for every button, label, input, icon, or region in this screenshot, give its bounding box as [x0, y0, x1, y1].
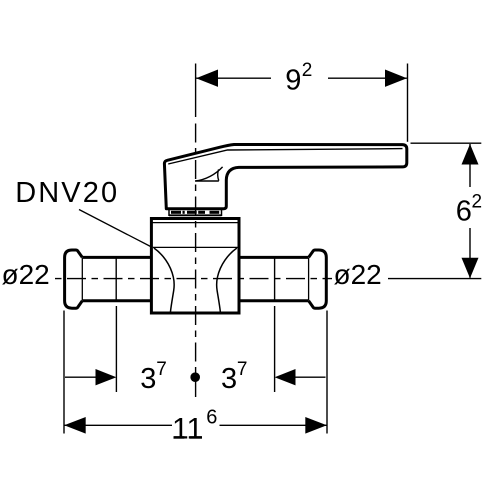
ball waterway left curve	[154, 248, 174, 312]
right bell inner shoulder line	[308, 258, 310, 300]
dimension 6.2 line	[469, 144, 471, 278]
extension line right seam for 3.7 dim	[274, 306, 276, 392]
dimension 3.7 left arrow	[96, 369, 117, 385]
left bell inner shoulder line	[81, 258, 83, 300]
horizontal centerline dash-dot	[55, 278, 332, 280]
svg-text:6: 6	[456, 195, 472, 227]
valve body outline	[151, 219, 239, 314]
dimension 9.2 line	[196, 77, 407, 79]
dimension 6.2 label	[456, 191, 482, 227]
right pipe seam line	[274, 257, 276, 300]
svg-text:2: 2	[302, 60, 313, 81]
handle thumb rest baseline	[195, 180, 219, 182]
svg-text:6: 6	[206, 407, 217, 429]
handle top face inner line	[168, 149, 402, 164]
svg-text:3: 3	[140, 363, 156, 395]
dimension 9.2 left arrow	[196, 70, 218, 87]
dimension 9.2 label	[285, 60, 312, 97]
dimension 3.7 right label	[221, 359, 247, 395]
svg-text:7: 7	[156, 359, 167, 380]
dimension 11.6 right arrow	[305, 417, 327, 434]
horizontal centerline solid right segment	[388, 278, 481, 280]
dimension 3.7 right line	[295, 376, 325, 378]
svg-text:DNV20: DNV20	[15, 177, 119, 209]
stem collar	[169, 209, 222, 216]
dimension 6.2 up arrow	[462, 144, 479, 165]
center reference dot	[190, 372, 200, 382]
svg-text:11: 11	[172, 413, 203, 446]
ball waterway right curve	[217, 248, 237, 312]
svg-text:3: 3	[221, 363, 237, 395]
left pipe tube	[82, 257, 152, 300]
extension line left bell for 11.6 dim	[63, 311, 65, 434]
svg-text:2: 2	[472, 191, 483, 212]
vertical centerline dash-dot	[195, 124, 197, 398]
dimension 9.2 right arrow	[385, 70, 407, 87]
left pipe seam line	[115, 257, 117, 300]
right pipe tube	[239, 257, 310, 300]
extension line right bell for 11.6 dim	[326, 311, 328, 434]
DNV20 label	[15, 177, 119, 209]
dimension 11.6 line	[64, 424, 327, 426]
valve bonnet line	[153, 246, 238, 248]
diameter 22 right label	[334, 259, 382, 290]
dimension 11.6 label	[172, 407, 217, 446]
svg-text:ø22: ø22	[334, 259, 382, 290]
dimension 6.2 down arrow	[462, 258, 479, 279]
extension line right of 9.2 dim	[407, 64, 409, 142]
svg-text:9: 9	[285, 65, 301, 97]
handle lever outline	[164, 145, 406, 209]
handle thumb rest edge	[218, 169, 219, 180]
diameter 22 left label	[2, 259, 50, 290]
extension line left seam for 3.7 dim	[115, 306, 117, 392]
dimension 3.7 right arrow	[275, 369, 296, 385]
dimension 11.6 left arrow	[64, 417, 86, 434]
extension line top of 6.2 dim	[411, 142, 482, 144]
dimension 3.7 left line	[65, 376, 96, 378]
DNV20 leader line	[79, 210, 153, 248]
vertical centerline solid extension for 9.2 dim	[195, 64, 197, 118]
valve body flange line	[153, 222, 238, 224]
svg-text:7: 7	[237, 359, 248, 380]
left press bell	[65, 250, 83, 308]
handle thumb rest arc	[195, 167, 222, 181]
right press bell	[309, 250, 327, 308]
dimension 3.7 left label	[140, 359, 166, 395]
svg-text:ø22: ø22	[2, 259, 50, 290]
